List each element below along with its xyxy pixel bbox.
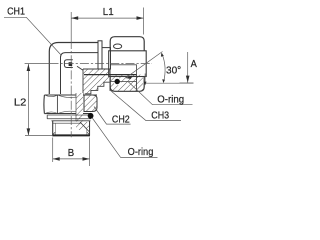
svg-text:CH2: CH2: [112, 113, 130, 125]
corner plug detail (CH1 leader target): [64, 60, 72, 68]
elbow body cross-section hatch (lower half, stepped thread profile): [77, 66, 109, 95]
horizontal centerline (dash-dot axis): [25, 63, 152, 65]
sectioned stud wall strip (hatch): [76, 93, 83, 130]
dimension B (stud thread): [53, 138, 90, 167]
port block section under swivel nut (face seal area): [84, 65, 143, 91]
stud sectioned sliver (hatch): [80, 122, 89, 132]
dimension L1 (horizontal length): [71, 8, 143, 35]
svg-text:30°: 30°: [166, 65, 181, 77]
locknut sectioned tab (hatch): [84, 95, 97, 112]
dimension A (axis to port face): [180, 52, 194, 83]
elbow body outer profile (90 deg corner): [49, 43, 98, 95]
svg-text:A: A: [191, 58, 197, 70]
dimension L2 (vertical length): [25, 64, 53, 135]
washer under locknut: [47, 115, 91, 119]
swivel nut (crown, hex band CH3, bottom crown, torque mark ellipse): [109, 37, 147, 92]
threaded stud (B thread): [52, 121, 91, 136]
svg-text:L2: L2: [14, 96, 27, 108]
body bore chamfer line: [77, 66, 83, 70]
sealing washer ring at body face: [98, 41, 102, 69]
vertical centerline (dash-dot axis): [70, 12, 72, 137]
30 deg sealing cone angle indicator: [126, 52, 194, 86]
svg-text:B: B: [68, 147, 74, 159]
locknut hex CH2 on vertical leg: [44, 95, 97, 114]
svg-text:L1: L1: [103, 6, 114, 18]
O-ring (face seal, solid section dot): [113, 78, 121, 86]
svg-text:CH1: CH1: [7, 5, 25, 17]
sleeve tube between body and nut: [102, 48, 111, 69]
elbow body inner step outline: [61, 53, 99, 94]
svg-text:CH3: CH3: [151, 109, 169, 121]
svg-text:O-ring: O-ring: [128, 146, 154, 158]
O-ring (stud seal, solid section dot): [88, 113, 94, 119]
svg-text:O-ring: O-ring: [157, 94, 184, 106]
